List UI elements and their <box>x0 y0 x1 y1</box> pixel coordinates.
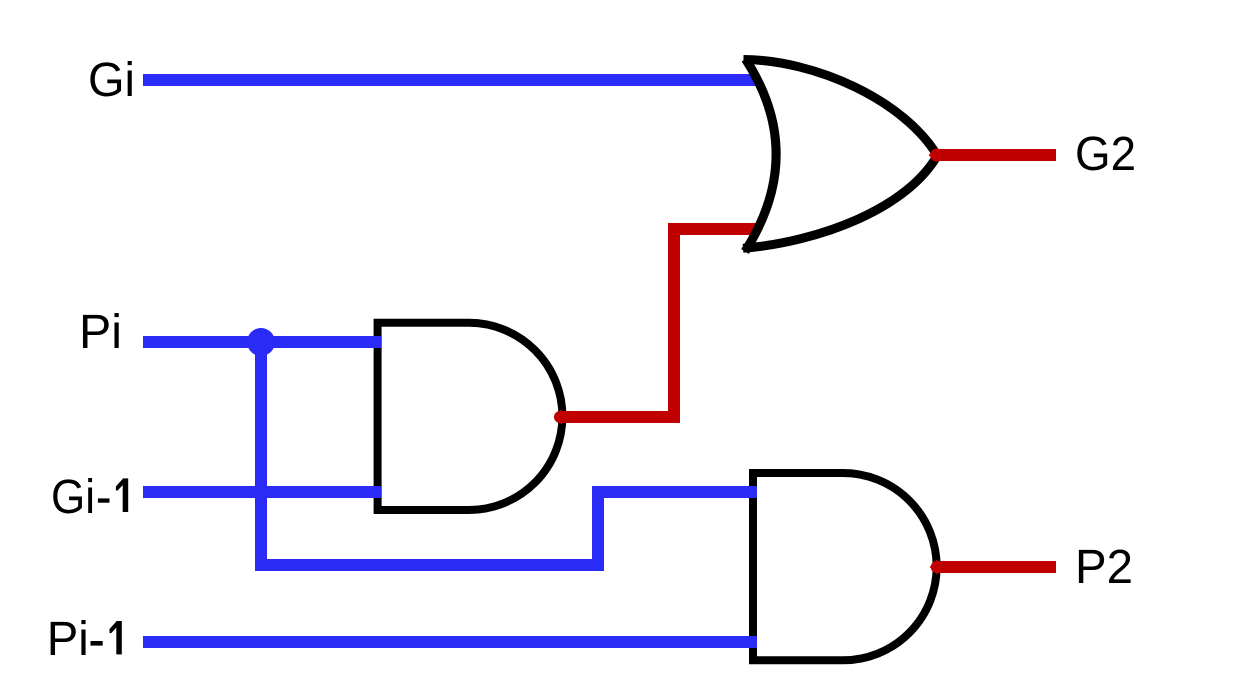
svg-text:Gi: Gi <box>88 54 135 107</box>
wire Pi branch to bottom AND gate <box>261 342 757 565</box>
wire G2 output (red) <box>929 148 943 163</box>
svg-text:Pi: Pi <box>47 613 89 666</box>
wire AND U2 output to OR input (red) <box>554 410 569 424</box>
wire Gi-1 input <box>143 486 381 498</box>
or-gate U1 (top) <box>743 59 939 252</box>
svg-text:Pi: Pi <box>79 306 122 359</box>
wire Gi input <box>143 74 764 86</box>
svg-text:Gi: Gi <box>51 471 95 524</box>
node junction dot on Pi <box>247 328 275 356</box>
and-gate U2 (middle) <box>378 323 563 510</box>
wire Pi-1 input <box>143 636 757 648</box>
and-gate U3 (bottom right) <box>753 473 937 660</box>
svg-text:G2: G2 <box>1075 128 1136 181</box>
wire Pi input <box>143 336 381 348</box>
svg-text:P2: P2 <box>1075 541 1133 594</box>
wire P2 output (red) <box>930 560 944 575</box>
